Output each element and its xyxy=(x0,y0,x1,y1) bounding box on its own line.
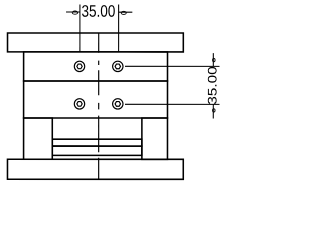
right dim extension line row2 xyxy=(125,103,219,105)
bolt B1 hex socket xyxy=(77,64,82,69)
right dim upper arrow xyxy=(213,58,216,61)
bolt B1 outer xyxy=(74,61,84,71)
left spacer rail xyxy=(24,118,53,159)
vertical centerline dash 2 xyxy=(98,61,100,65)
top dim left leader xyxy=(66,11,80,13)
right dim text 35.00 (rotated) xyxy=(208,67,217,104)
top dim left arrow xyxy=(72,11,77,14)
vertical centerline dash 3 xyxy=(98,70,100,95)
bolt B2 hex socket xyxy=(115,64,120,69)
vertical centerline dash 1 xyxy=(98,33,100,53)
bolt B4 outer xyxy=(113,99,123,109)
bolt B2 outer xyxy=(113,61,123,71)
top dim text 35.00 xyxy=(82,5,115,17)
top dim right arrow xyxy=(121,11,126,14)
right dim lower leader xyxy=(212,104,214,118)
bolt B3 outer xyxy=(74,99,84,109)
right spacer rail xyxy=(142,118,168,159)
bolt B3 hex socket xyxy=(77,102,82,107)
vertical centerline dash 6 xyxy=(98,158,100,180)
right dim extension line row1 xyxy=(125,65,219,67)
dim extension line right xyxy=(118,5,120,52)
vertical centerline dash 4 xyxy=(98,103,100,110)
core plate B xyxy=(24,81,168,118)
right dim upper leader xyxy=(212,53,214,66)
top clamp plate xyxy=(8,33,184,52)
cavity plate A xyxy=(24,52,168,81)
bottom clamp plate xyxy=(7,159,183,179)
top dim right leader xyxy=(119,11,133,13)
bolt B4 hex socket xyxy=(115,102,120,107)
vertical centerline dash 5 xyxy=(98,116,100,153)
ejector base plate xyxy=(52,146,142,155)
right dim lower arrow xyxy=(213,109,216,112)
ejector retainer plate xyxy=(52,139,142,146)
dim extension line left xyxy=(79,4,81,51)
